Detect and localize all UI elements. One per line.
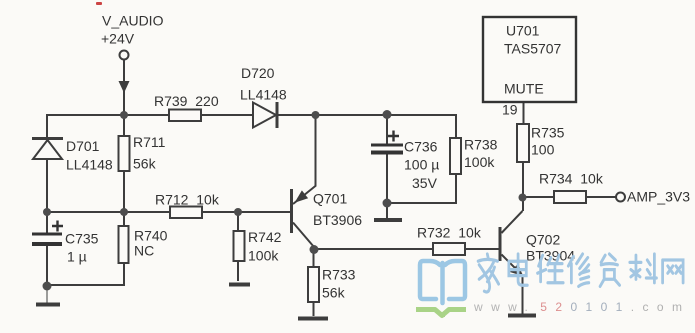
wire R742 top — [237, 212, 239, 231]
ground R733 — [298, 317, 328, 321]
wire R734 to terminal — [586, 196, 616, 198]
label R742 100k — [248, 248, 279, 264]
svg-text:MUTE: MUTE — [504, 81, 544, 97]
label R733 56k — [322, 285, 346, 301]
wire rail to C736 — [386, 115, 388, 144]
label C736 100u — [404, 157, 439, 173]
svg-text:Q702: Q702 — [526, 232, 560, 248]
terminal V_AUDIO — [120, 51, 129, 60]
wire R742 bottom to ground — [237, 261, 239, 281]
label C736 35V — [412, 175, 438, 191]
svg-text:R712 10k: R712 10k — [155, 192, 220, 208]
label R712 10k — [155, 192, 220, 208]
resistor R734 — [554, 191, 586, 203]
svg-text:D720: D720 — [241, 65, 275, 81]
svg-text:www.520101.com: www.520101.com — [473, 300, 690, 314]
svg-text:35V: 35V — [412, 175, 438, 191]
node Q701 collector junction — [310, 245, 319, 254]
resistor R712 — [170, 207, 202, 219]
transistor Q702 — [499, 211, 524, 276]
label D720 — [241, 65, 275, 81]
wire rail junction to R711 — [123, 115, 125, 136]
label R732 10k — [417, 225, 482, 241]
char zi — [600, 254, 619, 286]
label Q702 — [526, 232, 560, 248]
char xiu — [568, 254, 589, 286]
resistor R738 — [450, 138, 461, 174]
wire U701 MUTE pin 19 — [523, 102, 525, 124]
node Q702 collector junction — [519, 194, 527, 202]
label Q701 BT3906 — [313, 212, 362, 228]
watermark url — [473, 300, 690, 314]
node C735 ground junction — [43, 282, 52, 291]
supply arrow V_AUDIO — [119, 81, 130, 93]
node R711-R740 junction — [120, 208, 128, 216]
watermark chinese characters — [478, 254, 683, 292]
svg-text:LL4148: LL4148 — [66, 157, 113, 173]
wire base rail y212 — [47, 211, 170, 213]
wire rail D720 to R738 corner — [277, 115, 456, 138]
resistor R735 — [517, 124, 529, 162]
label C735 — [65, 231, 99, 247]
ground left C735 — [36, 286, 60, 305]
red scan mark — [96, 2, 102, 5]
wire C736 bottom to node — [386, 154, 388, 203]
diode D720 — [253, 102, 277, 128]
char liao — [630, 254, 657, 283]
wire R711 to base rail — [123, 171, 125, 212]
label V_AUDIO — [102, 13, 164, 29]
resistor R711 — [119, 136, 130, 171]
svg-text:100 µ: 100 µ — [404, 157, 439, 173]
svg-text:100: 100 — [531, 142, 555, 158]
svg-text:V_AUDIO: V_AUDIO — [102, 13, 164, 29]
svg-text:100k: 100k — [464, 154, 495, 170]
IC U701 TAS5707 — [483, 17, 576, 102]
wire Q701 emitter up to rail — [315, 115, 317, 186]
wire bottom node to R738 — [387, 174, 456, 203]
resistor R740 — [119, 226, 129, 263]
svg-text:U701: U701 — [506, 23, 540, 39]
label MUTE — [504, 81, 544, 97]
label R735 — [531, 125, 565, 141]
ground R742 — [229, 283, 250, 287]
terminal AMP_3V3 — [616, 193, 625, 202]
label R735 100 — [531, 142, 555, 158]
label R711 — [133, 134, 166, 150]
label C736 — [404, 139, 438, 155]
wire rail R739 to D720 — [201, 114, 253, 116]
svg-text:R742: R742 — [248, 229, 282, 245]
resistor R742 — [234, 231, 245, 261]
svg-text:NC: NC — [134, 243, 154, 259]
svg-text:D701: D701 — [66, 138, 100, 154]
label TAS5707 — [504, 41, 562, 57]
transistor Q701 — [290, 186, 316, 248]
svg-text:19: 19 — [502, 102, 518, 118]
resistor R732 — [433, 243, 465, 255]
wire top rail left segment — [47, 115, 169, 137]
label Q701 — [313, 191, 347, 207]
svg-text:R739 220: R739 220 — [154, 93, 219, 109]
label D701 — [66, 138, 100, 154]
label R738 100k — [464, 154, 495, 170]
wire D701 anode down — [46, 159, 48, 212]
svg-text:TAS5707: TAS5707 — [504, 41, 562, 57]
ground Q702 — [508, 314, 536, 318]
wire node to ground C736 — [386, 203, 388, 218]
char dian — [509, 254, 527, 285]
pin 19 — [502, 102, 518, 118]
resistor R739 — [169, 110, 201, 122]
label R738 — [464, 137, 498, 153]
wire Q701 collector node down to R733 — [313, 249, 315, 267]
label R742 — [248, 229, 282, 245]
wire R733 bottom to ground — [313, 302, 315, 316]
char wang — [663, 260, 684, 283]
wire R740 bottom to node — [47, 263, 124, 285]
label R734 10k — [539, 171, 604, 187]
diode D701 — [32, 139, 63, 160]
svg-text:+24V: +24V — [101, 31, 135, 47]
label R733 — [322, 267, 356, 283]
svg-text:100k: 100k — [248, 248, 279, 264]
svg-text:Q701: Q701 — [313, 191, 347, 207]
label R740 NC — [134, 243, 154, 259]
svg-text:AMP_3V3: AMP_3V3 — [627, 189, 690, 205]
ground C736 — [374, 218, 402, 222]
label C735 1u — [67, 249, 87, 265]
wire collector rail y249 — [314, 248, 433, 250]
node AMP_3V3 — [627, 189, 690, 205]
node C736 bottom junction — [383, 199, 392, 208]
wire C735 to bottom node — [46, 246, 48, 286]
label D701 LL4148 — [66, 157, 113, 173]
node C736 top junction — [383, 110, 392, 119]
svg-text:56k: 56k — [322, 285, 346, 301]
wire AMP_3V3 net — [523, 196, 554, 198]
wire node to C735 — [46, 212, 48, 233]
svg-text:R734 10k: R734 10k — [539, 171, 604, 187]
watermark book icon — [420, 261, 465, 303]
label Q702 BT3904 — [526, 248, 575, 264]
svg-text:C735: C735 — [65, 231, 99, 247]
svg-text:56k: 56k — [133, 156, 157, 172]
capacitor C736 — [371, 131, 403, 155]
wire V_AUDIO feed — [123, 60, 125, 115]
watermark book ribbon — [416, 310, 466, 318]
svg-text:1 µ: 1 µ — [67, 249, 87, 265]
label D720 LL4148 — [240, 87, 287, 103]
label R740 — [134, 228, 168, 244]
capacitor C735 — [32, 221, 63, 247]
svg-text:R732 10k: R732 10k — [417, 225, 482, 241]
label R711 56k — [133, 156, 157, 172]
label U701 — [506, 23, 540, 39]
wire R735 to Q702 collector — [522, 162, 524, 211]
svg-text:R733: R733 — [322, 267, 356, 283]
wire Q702 emitter to ground — [522, 275, 524, 314]
node R742 junction — [234, 208, 242, 216]
node D701-C735 junction — [43, 208, 51, 216]
svg-text:BT3906: BT3906 — [313, 212, 362, 228]
svg-text:R738: R738 — [464, 137, 498, 153]
char wei — [538, 255, 564, 283]
wire node to R740 — [123, 212, 125, 226]
resistor R733 — [308, 267, 319, 302]
label +24V — [101, 31, 135, 47]
node rail-R711 junction — [120, 111, 128, 119]
wire R732 to Q702 base — [465, 248, 499, 250]
svg-text:R735: R735 — [531, 125, 565, 141]
svg-text:R711: R711 — [133, 134, 166, 150]
node D720-Q701 junction — [312, 111, 320, 119]
label R739 220 — [154, 93, 219, 109]
char jia — [478, 254, 499, 292]
svg-text:LL4148: LL4148 — [240, 87, 287, 103]
svg-text:C736: C736 — [404, 139, 438, 155]
svg-text:R740: R740 — [134, 228, 168, 244]
wire R712 to Q701 base — [202, 211, 290, 213]
